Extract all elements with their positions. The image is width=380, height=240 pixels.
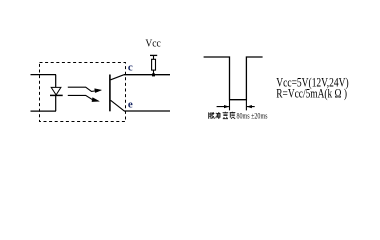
svg-text:Vcc: Vcc bbox=[145, 38, 161, 49]
svg-text:80ms ±20ms: 80ms ±20ms bbox=[237, 112, 268, 121]
svg-text:e: e bbox=[128, 99, 133, 111]
svg-text:R=Vcc/5mA(k Ω ): R=Vcc/5mA(k Ω ) bbox=[276, 86, 347, 100]
svg-text:c: c bbox=[128, 62, 133, 74]
